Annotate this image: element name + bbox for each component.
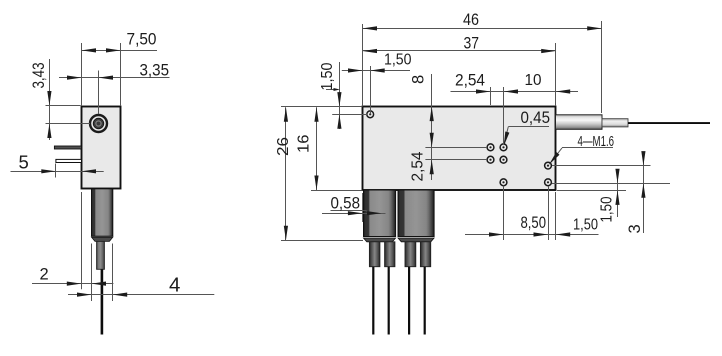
hole grid r1c1 bbox=[487, 144, 494, 151]
dim 37 bbox=[363, 34, 556, 107]
svg-text:5: 5 bbox=[19, 152, 29, 173]
side-view body bbox=[82, 107, 121, 189]
port centerline horizontal bbox=[46, 123, 91, 125]
optical port circle bbox=[90, 115, 107, 132]
leader 0.45 bbox=[504, 108, 550, 146]
svg-text:2: 2 bbox=[40, 266, 49, 284]
dim 8 (vertical) bbox=[410, 74, 434, 147]
stub B1 bbox=[405, 242, 416, 267]
pin tube A bbox=[364, 190, 396, 242]
snout tube bbox=[556, 115, 603, 130]
svg-text:3,43: 3,43 bbox=[30, 63, 48, 89]
dim 26 (vertical) bbox=[275, 107, 363, 240]
svg-text:1,50: 1,50 bbox=[573, 217, 598, 234]
dim 8.50 and 1.50 bottom bbox=[465, 186, 599, 241]
side-view fiber bbox=[101, 269, 104, 334]
svg-text:8: 8 bbox=[410, 75, 428, 84]
dim 3 right vertical bbox=[626, 151, 646, 233]
svg-text:7,50: 7,50 bbox=[127, 31, 157, 49]
dim 1.50 top-left vertical bbox=[319, 62, 367, 129]
svg-text:26: 26 bbox=[275, 137, 292, 156]
dim 3.35 bbox=[59, 62, 170, 80]
svg-text:8,50: 8,50 bbox=[521, 214, 547, 232]
wire 4 bbox=[424, 267, 426, 335]
svg-text:16: 16 bbox=[296, 134, 313, 153]
body top extension to left bbox=[281, 106, 363, 108]
dim 2 bbox=[32, 192, 113, 301]
dim 2.54 (vertical) bbox=[410, 147, 488, 181]
hole bottom mid bbox=[500, 179, 507, 186]
leader 4-M1.6 bbox=[549, 134, 614, 165]
leader 0.58 bbox=[322, 193, 386, 222]
dim 5 bbox=[11, 152, 104, 178]
svg-text:4—M1.6: 4—M1.6 bbox=[578, 134, 615, 150]
wire 1 bbox=[372, 267, 374, 335]
right side extension lines bbox=[552, 166, 670, 191]
svg-text:1,50: 1,50 bbox=[599, 196, 616, 222]
svg-text:3,35: 3,35 bbox=[140, 62, 170, 80]
upper lead pin (filled) bbox=[54, 146, 81, 149]
svg-text:4: 4 bbox=[169, 274, 180, 297]
svg-text:10: 10 bbox=[525, 72, 542, 89]
hole bottom right bbox=[545, 179, 552, 186]
pin tube B bbox=[398, 190, 434, 242]
hole grid r1c2 bbox=[500, 144, 507, 151]
svg-text:46: 46 bbox=[463, 10, 479, 29]
stub A2 bbox=[385, 242, 395, 267]
dim 3.43 (vertical) bbox=[30, 59, 81, 140]
svg-text:0,45: 0,45 bbox=[521, 108, 551, 127]
side-view lower tube bbox=[97, 241, 105, 269]
hole grid r2c2 bbox=[500, 156, 507, 163]
stub B2 bbox=[420, 242, 430, 267]
hole grid r2c1 bbox=[487, 156, 494, 163]
dim 1.50 top-left horizontal bbox=[342, 52, 412, 115]
front-view body bbox=[363, 107, 556, 191]
dim 4 bbox=[68, 244, 214, 302]
hole right mid bbox=[545, 162, 552, 169]
svg-text:2,54: 2,54 bbox=[455, 72, 485, 90]
dim 46 bbox=[363, 10, 602, 113]
svg-text:0,58: 0,58 bbox=[331, 195, 361, 213]
svg-text:1,50: 1,50 bbox=[384, 52, 412, 69]
fiber ferrule bbox=[602, 119, 628, 127]
port centerline vertical bbox=[98, 71, 100, 115]
lower lead pin (outline) bbox=[56, 159, 82, 162]
dim 1.50 right vertical bbox=[599, 169, 620, 223]
stub A1 bbox=[369, 242, 380, 267]
mounting hole top-left bbox=[367, 111, 374, 118]
wire 2 bbox=[388, 267, 390, 335]
wire 3 bbox=[408, 267, 410, 335]
svg-text:1,50: 1,50 bbox=[319, 62, 336, 90]
svg-text:2,54: 2,54 bbox=[410, 151, 427, 181]
dim 7.50 bbox=[82, 31, 158, 107]
dim 16 (vertical) bbox=[296, 107, 363, 190]
svg-text:37: 37 bbox=[464, 34, 480, 53]
side-view ferrule tube bbox=[92, 189, 113, 242]
dim 2.54 horizontal + dim 10 bbox=[451, 72, 579, 145]
svg-text:3: 3 bbox=[626, 224, 644, 233]
fiber line bbox=[628, 122, 710, 124]
